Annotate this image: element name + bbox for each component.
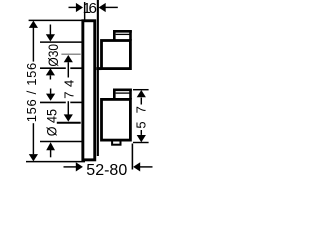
- svg-text:Ø30: Ø30: [46, 44, 61, 67]
- svg-text:52-80: 52-80: [86, 162, 127, 178]
- svg-text:16: 16: [83, 0, 97, 17]
- svg-text:156 / 156: 156 / 156: [24, 63, 39, 123]
